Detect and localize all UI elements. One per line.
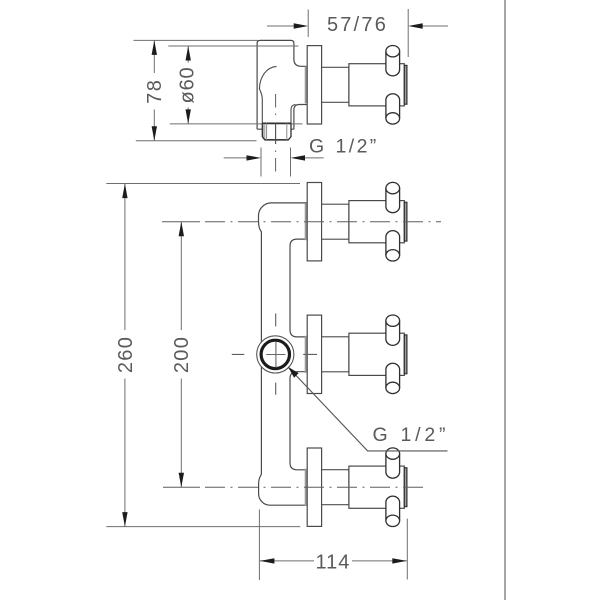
svg-text:260: 260 [115, 336, 137, 373]
svg-text:57/76: 57/76 [327, 14, 388, 36]
threaded nipple shading [263, 124, 266, 140]
middle outlet circle outer [257, 336, 294, 373]
leader arrowhead [288, 367, 299, 378]
side-view valve wall gasket [305, 66, 308, 103]
svg-text:200: 200 [171, 336, 193, 373]
nipple top edge [262, 122, 291, 124]
top valve end cap [404, 202, 407, 241]
G 1/2 top ext line left [260, 148, 262, 177]
mounting bar right edge segment 1 with fillets [290, 239, 307, 337]
svg-text:ø60: ø60 [176, 67, 198, 104]
dimension 260 line [124, 184, 126, 527]
centerline: spout axis (top figure) [275, 94, 277, 121]
G 1/2 top left arrow [224, 157, 247, 159]
dimension 57/76 ext line right [407, 9, 409, 57]
side-view valve handle body [349, 64, 404, 106]
side-view valve handle top bar [386, 51, 400, 76]
side-view valve wall flange [307, 46, 321, 124]
bottom valve wall flange [307, 448, 321, 526]
threaded nipple outline [262, 123, 291, 140]
middle outlet circle bold [261, 340, 289, 368]
mounting bar right edge segment 2 with fillets [290, 372, 307, 470]
dimension 78 line [153, 40, 155, 140]
centerline: bar axis dashes [275, 313, 277, 394]
centerline: middle valve short dashes [232, 353, 317, 355]
drawing frame border right [504, 0, 506, 600]
svg-text:78: 78 [144, 79, 166, 104]
top valve wall gasket [305, 203, 308, 240]
middle valve end cap [404, 335, 407, 374]
wire: extension line flange top (dia60 dim) [168, 45, 298, 47]
elbow body outline [257, 40, 307, 129]
dimension dia60 line [187, 46, 189, 124]
middle outlet crosshair [266, 342, 285, 368]
top valve handle body [349, 201, 404, 243]
svg-text:1/2”: 1/2” [336, 136, 379, 158]
dimension 114 ext line left [258, 510, 260, 581]
elbow inner bend curve [259, 66, 276, 123]
wire: extension line nipple bottom (78 dim) [136, 140, 257, 142]
middle valve handle bottom bar [386, 363, 400, 388]
top valve stem [322, 204, 349, 239]
elbow inner right edge [291, 105, 296, 124]
top valve handle bottom bar [386, 231, 400, 256]
dimension 57/76 left arrow [267, 25, 295, 27]
svg-text:G: G [309, 136, 324, 158]
wire: extension line top of elbow (78 dim) [134, 39, 259, 41]
bottom valve handle body [349, 466, 404, 508]
G 1/2 top ext line right [290, 148, 292, 177]
leader line to G 1/2 [289, 368, 448, 451]
elbow bottom shoulder steps [257, 128, 294, 130]
side-view valve end cap [404, 65, 407, 104]
bottom valve stem [322, 470, 349, 505]
centerline: top valve axis [162, 221, 200, 223]
bottom valve handle top bar [386, 454, 400, 479]
bottom valve end cap [404, 468, 407, 507]
middle valve wall gasket [305, 336, 308, 373]
nipple bottom edge [265, 139, 289, 141]
middle valve stem [322, 337, 349, 372]
middle valve handle body [349, 333, 404, 375]
svg-text:114: 114 [316, 551, 351, 573]
centerline: bottom valve axis [163, 486, 200, 488]
dimension 57/76 ext line left [307, 10, 309, 38]
top valve handle top bar [386, 188, 400, 213]
mounting bar outline left/top/bottom [259, 203, 308, 505]
dimension 114 line [260, 560, 407, 562]
side-view valve stem [322, 67, 349, 102]
wire: extension line 260 top [106, 183, 300, 185]
elbow pipe bottom edge and fillet [294, 105, 307, 130]
middle valve handle top bar [386, 321, 400, 346]
G 1/2 top right arrow [304, 157, 324, 159]
dimension 114 ext line right [406, 519, 408, 580]
side-view valve handle bottom bar [386, 94, 400, 119]
top valve wall flange [307, 183, 321, 261]
bottom valve wall gasket [305, 469, 308, 506]
nipple thread lines [267, 123, 287, 140]
wire: extension line 260 bottom [106, 526, 300, 528]
dimension 57/76 right arrow [421, 25, 448, 27]
svg-text:G: G [373, 424, 388, 446]
svg-text:1/2”: 1/2” [401, 424, 450, 446]
wire: extension line flange bottom (dia60 dim) [170, 123, 303, 125]
middle valve wall flange [307, 315, 321, 393]
bottom valve handle bottom bar [386, 496, 400, 521]
dimension 200 line [180, 222, 182, 488]
